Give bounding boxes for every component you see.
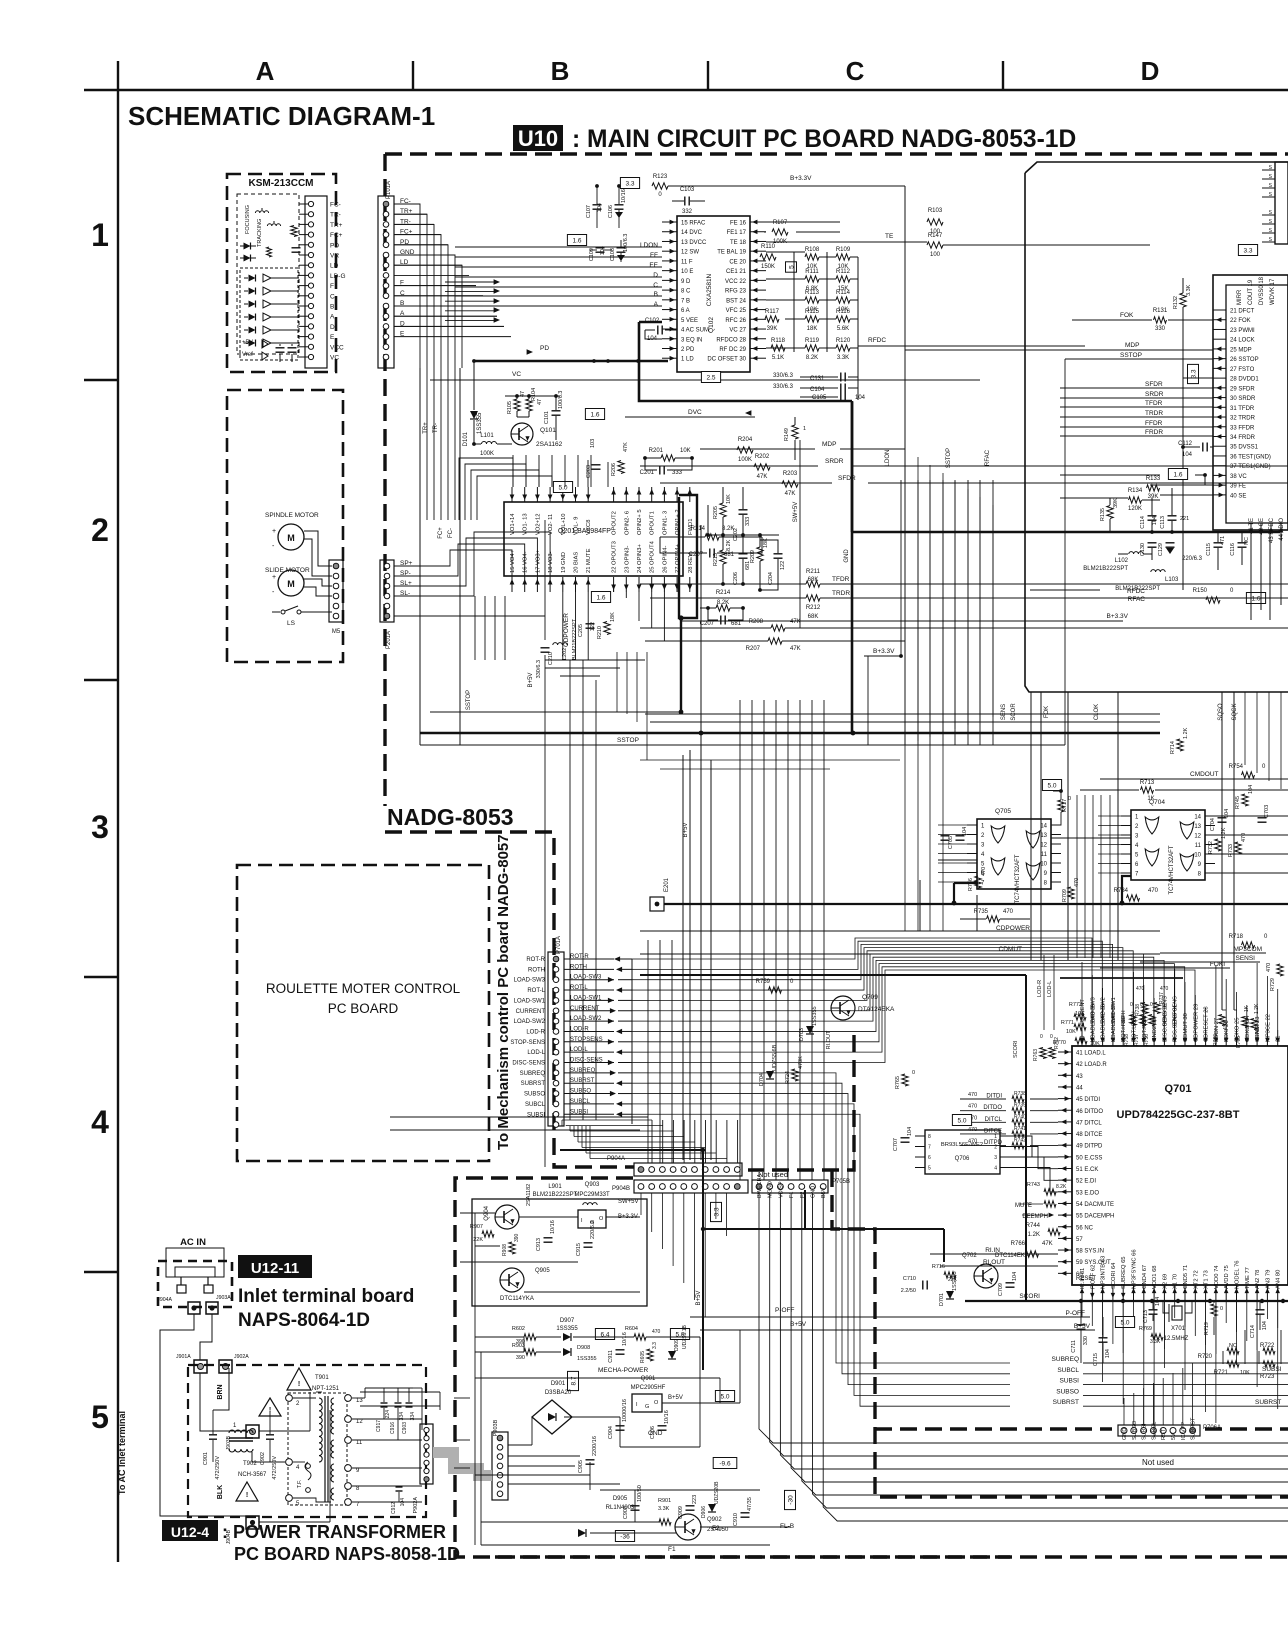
svg-text:RF DC 29: RF DC 29	[719, 347, 746, 353]
svg-text:29 SFDR: 29 SFDR	[1230, 386, 1255, 392]
svg-text:330/6.3: 330/6.3	[773, 373, 794, 379]
resistor R714 1.2K	[1177, 739, 1183, 751]
svg-text:SSTOP: SSTOP	[946, 448, 952, 468]
main board dashed border step	[385, 832, 634, 1167]
svg-text:5.0: 5.0	[720, 1394, 729, 1401]
svg-text:M: M	[287, 533, 295, 543]
diode D101 1SS355	[470, 411, 478, 419]
roulette dashed box	[237, 865, 489, 1161]
svg-text:R116: R116	[836, 309, 851, 315]
svg-text:ROTH: ROTH	[528, 967, 545, 973]
svg-text:C101: C101	[544, 411, 550, 424]
resistor R133 39K	[1147, 485, 1160, 491]
svg-text:FC-: FC-	[330, 202, 341, 209]
transistor Q904 2SA1182	[495, 1205, 519, 1229]
svg-text:11: 11	[356, 1440, 363, 1446]
KSM photodiode 4	[249, 314, 256, 321]
svg-text:U12-11: U12-11	[251, 1260, 299, 1277]
row tick 3-4	[84, 976, 118, 978]
capacitor C130 104	[1148, 542, 1157, 544]
capacitor C912 104	[396, 1486, 403, 1488]
svg-text:G: G	[645, 1404, 649, 1410]
svg-text:0: 0	[1220, 1306, 1223, 1312]
svg-text:FE1 17: FE1 17	[727, 230, 747, 236]
svg-text:AVDD 75: AVDD 75	[1224, 1265, 1230, 1289]
svg-text:C114: C114	[1140, 516, 1146, 529]
svg-text:470: 470	[1266, 963, 1272, 972]
svg-text:VR: VR	[330, 253, 339, 260]
svg-text:R720: R720	[1198, 1354, 1213, 1360]
svg-text:23 PWMI: 23 PWMI	[1230, 328, 1255, 334]
transformer secondary windings	[331, 1398, 334, 1434]
capacitor C916 334	[395, 1402, 402, 1404]
resistor R602 390	[524, 1334, 536, 1340]
svg-text:SQSO: SQSO	[1218, 703, 1224, 721]
svg-text:8: 8	[928, 1134, 931, 1140]
svg-text:221: 221	[1180, 516, 1189, 522]
svg-text:58 SYS.IN: 58 SYS.IN	[1076, 1249, 1104, 1255]
svg-text:MP3INTB 63: MP3INTB 63	[1101, 1256, 1107, 1289]
value box 5.0 Q705	[1042, 780, 1061, 791]
svg-text:B: B	[654, 291, 658, 298]
svg-text:B5V: B5V	[821, 1187, 827, 1198]
resistor R113 10K	[805, 297, 819, 303]
svg-text:24 OPIN3+: 24 OPIN3+	[637, 544, 643, 573]
svg-text:R745: R745	[1235, 796, 1241, 809]
svg-text:C207: C207	[700, 621, 715, 627]
svg-text:SCHEMATIC DIAGRAM-1: SCHEMATIC DIAGRAM-1	[128, 101, 435, 131]
svg-text:43: 43	[1076, 1074, 1083, 1080]
thick loop around Q201 right edge	[679, 495, 697, 618]
svg-text:A: A	[256, 56, 275, 86]
svg-text:TR+: TR+	[330, 222, 343, 229]
svg-text:R120: R120	[836, 338, 851, 344]
svg-text:!: !	[269, 1407, 271, 1414]
svg-text:18K: 18K	[763, 538, 769, 548]
svg-text:C201: C201	[640, 470, 655, 476]
svg-text:C911: C911	[608, 1350, 614, 1363]
value box -30	[785, 1490, 796, 1509]
svg-text:5.0: 5.0	[558, 485, 567, 492]
svg-text:F1: F1	[668, 1546, 676, 1553]
svg-text:RI.OUT: RI.OUT	[983, 1259, 1005, 1266]
svg-text:55 DACEMPH: 55 DACEMPH	[1076, 1214, 1114, 1220]
svg-text:R602: R602	[512, 1326, 525, 1332]
svg-text:TE: TE	[885, 233, 894, 240]
resistor R120 3.3K	[836, 345, 850, 351]
svg-text:C912: C912	[391, 1502, 397, 1514]
svg-text:LOD-L: LOD-L	[1047, 981, 1053, 997]
svg-text:R743: R743	[1027, 1182, 1040, 1188]
svg-text:Vref: Vref	[242, 352, 253, 358]
svg-text:TRDR: TRDR	[1145, 410, 1163, 417]
svg-text:SCORI: SCORI	[1013, 1040, 1019, 1058]
resistor R147 100	[927, 242, 943, 248]
svg-text:GND: GND	[844, 549, 850, 563]
svg-text:SENSI: SENSI	[1235, 955, 1255, 962]
svg-text:C707: C707	[893, 1138, 899, 1151]
capacitor C114 104	[1148, 515, 1157, 517]
value box -9.6	[713, 1458, 737, 1469]
svg-text:Q702: Q702	[962, 1253, 977, 1259]
transformer right pins	[345, 1395, 352, 1402]
svg-text:1: 1	[803, 426, 806, 432]
resistor R729 470	[1277, 964, 1283, 976]
value box 5 vertical	[786, 262, 797, 272]
svg-text:TFDR: TFDR	[1145, 400, 1163, 407]
svg-text:FRDR: FRDR	[1145, 429, 1163, 436]
svg-text:D: D	[653, 272, 658, 279]
svg-text:SUBCL: SUBCL	[525, 1102, 546, 1108]
svg-text:VOL- 9: VOL- 9	[574, 517, 580, 535]
svg-text:28 DVDD1: 28 DVDD1	[1230, 377, 1259, 383]
top right pin 4	[1262, 196, 1275, 198]
KSM photodiode 5	[249, 327, 256, 334]
svg-text:R740: R740	[1014, 1114, 1026, 1120]
resistor R716 22K	[944, 1272, 956, 1278]
svg-text:11 F: 11 F	[681, 259, 693, 265]
svg-text:RFDCO 28: RFDCO 28	[716, 337, 746, 343]
svg-text:45 DITDI: 45 DITDI	[1076, 1097, 1100, 1103]
svg-text:39K: 39K	[1113, 498, 1119, 508]
resistor R707 1.2K	[1251, 1019, 1257, 1030]
wires lower mid band	[545, 659, 645, 661]
AC inlet dashed box	[158, 1261, 232, 1307]
svg-text:56 NC: 56 NC	[1076, 1225, 1094, 1231]
value box 5.0 mecha	[670, 1329, 689, 1340]
svg-text:4: 4	[994, 1166, 997, 1172]
svg-text:C: C	[846, 56, 865, 86]
svg-text:R762: R762	[1054, 1037, 1060, 1049]
capacitor C202 333	[739, 509, 748, 511]
svg-text:2: 2	[994, 1145, 997, 1151]
svg-text:: MAIN CIRCUIT PC BOARD NADG-: : MAIN CIRCUIT PC BOARD NADG-8053-1D	[572, 126, 1076, 153]
svg-text:14: 14	[1194, 815, 1201, 821]
svg-text:122: 122	[590, 622, 596, 631]
diode D701 1SS355	[946, 1291, 954, 1299]
resistor R206 47K	[618, 461, 624, 474]
svg-text:1.2K: 1.2K	[1028, 1232, 1040, 1238]
top right pin 7	[1262, 232, 1275, 234]
svg-text:LD: LD	[330, 263, 339, 270]
value box 1.6 left	[585, 409, 604, 420]
svg-text:L101: L101	[480, 433, 494, 439]
svg-text:C904: C904	[608, 1426, 614, 1439]
KSM photodiode 6	[249, 340, 256, 347]
svg-text:R202: R202	[755, 454, 770, 460]
resistor R115 18K	[805, 316, 819, 322]
resistor R203 47K	[782, 481, 798, 487]
svg-text:C107: C107	[586, 205, 592, 218]
svg-text:GND: GND	[1122, 1428, 1128, 1440]
svg-text:FF: FF	[650, 252, 658, 259]
caps top rail	[365, 1387, 413, 1389]
svg-text:DTC114EKA: DTC114EKA	[995, 1253, 1029, 1259]
spindle motor M1	[278, 524, 304, 550]
svg-text:4 AC SUM: 4 AC SUM	[681, 328, 709, 334]
svg-text:P-OFF: P-OFF	[775, 1307, 795, 1314]
svg-text:D901: D901	[551, 1381, 566, 1387]
svg-text:B+5V: B+5V	[668, 1395, 683, 1401]
resistor R736 470	[975, 876, 981, 888]
KSM laser diode D2	[244, 255, 251, 262]
svg-text:GND4 67: GND4 67	[1142, 1265, 1148, 1289]
top right pin 3	[1262, 187, 1275, 189]
svg-text:Q701: Q701	[1165, 1083, 1192, 1095]
svg-text:P904B: P904B	[612, 1186, 630, 1192]
svg-text:0: 0	[1050, 1034, 1053, 1040]
Q201 top wire verticals	[512, 455, 514, 487]
AC inlet plug shape	[166, 1248, 224, 1277]
svg-text:R738: R738	[1014, 1091, 1026, 1097]
svg-text:23 OPIN3-: 23 OPIN3-	[624, 546, 630, 573]
resistor R119 8.2K	[805, 345, 819, 351]
label U12-11 block	[238, 1255, 312, 1278]
svg-text:49 DITPD: 49 DITPD	[1076, 1144, 1103, 1150]
svg-text:+: +	[272, 574, 276, 581]
svg-text:2.5: 2.5	[706, 375, 715, 382]
KSM pin LD	[308, 263, 313, 268]
svg-text:10K: 10K	[1240, 1370, 1250, 1376]
svg-text:50 E.CSS: 50 E.CSS	[1076, 1155, 1102, 1161]
svg-text:Not used: Not used	[1142, 1458, 1174, 1467]
svg-text:5: 5	[91, 1399, 109, 1435]
KSM cap near LD	[292, 247, 301, 249]
svg-text:R201: R201	[649, 448, 664, 454]
column tick B	[412, 61, 414, 90]
svg-text:EE: EE	[649, 262, 658, 269]
sub-board box power reg	[472, 1199, 647, 1306]
value box 6.4	[595, 1329, 614, 1340]
svg-text:3.3: 3.3	[1243, 248, 1252, 255]
svg-text:R214: R214	[716, 590, 731, 596]
P705B vertical wires down	[759, 1193, 1288, 1443]
top right pin 8	[1262, 241, 1275, 243]
wires from P101A down	[394, 204, 420, 368]
svg-text:RI.OUT: RI.OUT	[826, 1030, 832, 1049]
svg-text:6.4: 6.4	[600, 1332, 609, 1339]
power region horizontal rails	[460, 1212, 495, 1214]
svg-text:R150: R150	[1193, 588, 1208, 594]
value box 8.7	[568, 1371, 579, 1390]
Q201 bottom wire verticals right half	[613, 584, 615, 592]
capacitor C101 100/6.3	[552, 410, 561, 412]
wire B+3.3V	[668, 185, 905, 187]
svg-text:R205: R205	[713, 506, 719, 519]
svg-text:U12-4: U12-4	[171, 1524, 209, 1540]
capacitor C102 104	[657, 326, 659, 335]
svg-text:14: 14	[1040, 824, 1047, 830]
svg-text:LOAD-SW3: LOAD-SW3	[514, 978, 546, 984]
resistor R132 3.3K	[1180, 293, 1186, 307]
svg-text:LOAD.SW1 37: LOAD.SW1 37	[1111, 1004, 1117, 1042]
long horizontals left-to-right mid	[390, 1116, 648, 1118]
resistor R111 6.8K	[805, 276, 819, 282]
svg-text:GND: GND	[648, 1430, 663, 1437]
svg-text:MODEL 76: MODEL 76	[1235, 1261, 1241, 1289]
svg-text:681: 681	[731, 621, 742, 627]
capacitor C201 333	[659, 466, 661, 475]
staircase corners right of Q102	[904, 449, 906, 745]
svg-text:R123: R123	[653, 174, 668, 180]
svg-text:Q902: Q902	[707, 1517, 722, 1523]
transformer pin 2	[286, 1395, 293, 1402]
KSM monitor diode	[267, 247, 272, 257]
svg-text:104: 104	[1182, 452, 1193, 458]
svg-text:P.OFF 62: P.OFF 62	[1090, 1265, 1096, 1289]
svg-text:R737: R737	[1159, 992, 1165, 1004]
svg-text:2 PD: 2 PD	[681, 347, 695, 353]
resistor R110 150K	[760, 254, 776, 260]
svg-text:8.2K: 8.2K	[722, 526, 734, 532]
svg-text:1.2K: 1.2K	[1183, 727, 1189, 739]
svg-text:330/6.3: 330/6.3	[536, 660, 542, 678]
svg-text:TC74VHCT32AFT: TC74VHCT32AFT	[1169, 845, 1175, 894]
svg-text:R723: R723	[1260, 1374, 1275, 1380]
svg-text:B+3.3V: B+3.3V	[1106, 613, 1128, 620]
resistor R769 3.3K	[1151, 1334, 1163, 1340]
svg-text:SQCK: SQCK	[1232, 703, 1238, 720]
svg-text:R765: R765	[895, 1076, 901, 1089]
capacitor C704 104	[1218, 817, 1227, 819]
svg-text:33 FFDR: 33 FFDR	[1230, 425, 1255, 431]
svg-text:R208: R208	[749, 619, 764, 625]
svg-text:J902A: J902A	[234, 1354, 249, 1360]
svg-text:8.7: 8.7	[571, 1376, 578, 1385]
resistor R732 1.2K	[1215, 839, 1221, 851]
svg-text:RST: RST	[1161, 1428, 1167, 1440]
svg-text:GND: GND	[811, 1186, 817, 1198]
svg-text:100K: 100K	[480, 451, 494, 457]
svg-text:11: 11	[1041, 852, 1048, 858]
gray ribbon cable	[433, 1447, 459, 1458]
capacitor C116 NC	[1238, 542, 1247, 544]
svg-text:47K: 47K	[790, 619, 801, 625]
value box 1.6 caps	[567, 235, 586, 246]
pins 38-40 wires	[1150, 484, 1213, 486]
svg-text:25 MDP: 25 MDP	[1230, 347, 1252, 353]
bus lines into P904 region	[562, 1119, 652, 1121]
svg-text:C903: C903	[402, 1422, 408, 1434]
svg-text:FOCUSING: FOCUSING	[245, 205, 251, 234]
svg-text:R739: R739	[1014, 1103, 1026, 1109]
transformer T901 warning triangle	[287, 1368, 311, 1390]
svg-text:OPOUT1: OPOUT1	[650, 511, 656, 535]
svg-text:8.2K: 8.2K	[726, 539, 732, 551]
svg-text:C204: C204	[768, 572, 774, 585]
capacitor C905 2200/16	[586, 1459, 595, 1461]
svg-text:10000/16: 10000/16	[622, 1399, 628, 1422]
svg-text:13: 13	[1040, 833, 1047, 839]
svg-text:R107: R107	[773, 220, 788, 226]
Q705 input wires	[938, 824, 967, 826]
value box 3.3 power	[711, 1202, 722, 1221]
svg-text:R133: R133	[1146, 476, 1161, 482]
svg-text:0: 0	[912, 1070, 915, 1076]
svg-text:P-OFF: P-OFF	[1066, 1310, 1086, 1317]
svg-text:26 SSTOP: 26 SSTOP	[1230, 357, 1259, 363]
svg-text:1.6: 1.6	[1173, 472, 1182, 479]
top right pin 1	[1262, 169, 1275, 171]
svg-text:52 E.DI: 52 E.DI	[1076, 1179, 1096, 1185]
resistor R213 8.2K	[720, 550, 726, 564]
wire routes P701A to Q701 top pins	[648, 938, 1092, 1030]
svg-text:C901: C901	[203, 1452, 209, 1465]
svg-text:SW+5V: SW+5V	[618, 1199, 639, 1205]
svg-text:LS: LS	[287, 620, 296, 627]
svg-text:54 DACMUTE: 54 DACMUTE	[1076, 1202, 1114, 1208]
wires above Q701 top pins	[1081, 962, 1083, 1030]
svg-text:R714: R714	[1170, 741, 1176, 754]
svg-text:1.6: 1.6	[596, 595, 605, 602]
svg-text:J901A: J901A	[176, 1354, 191, 1360]
svg-text:10K: 10K	[680, 448, 691, 454]
thick power rails	[560, 1149, 703, 1151]
resistor R754 0	[1242, 772, 1255, 778]
resistor R201 10K	[661, 455, 675, 461]
svg-text:20 BIAS: 20 BIAS	[574, 552, 580, 573]
svg-text:42 LOAD.R: 42 LOAD.R	[1076, 1062, 1107, 1068]
capacitor C903 334	[406, 1402, 413, 1404]
svg-text:R204: R204	[738, 437, 753, 443]
label U12-4 block	[162, 1520, 218, 1541]
svg-text:SUBREQ: SUBREQ	[1052, 1356, 1079, 1363]
svg-text:M5: M5	[332, 629, 341, 635]
svg-text:UDZS5.6B: UDZS5.6B	[772, 1044, 778, 1071]
svg-text:C917: C917	[376, 1420, 382, 1432]
capacitor C710 2.2/50	[922, 1281, 924, 1290]
svg-text:RFG 23: RFG 23	[725, 289, 747, 295]
svg-text:R769: R769	[1139, 1326, 1152, 1332]
svg-text:KSM-213CCM: KSM-213CCM	[248, 178, 313, 189]
value box 2.5	[701, 372, 720, 383]
capacitor C915 220/6.3	[584, 1242, 593, 1244]
audio IC Q201 BA5984FP box	[504, 502, 683, 576]
svg-text:47K: 47K	[623, 442, 629, 452]
resistor R114 10K	[836, 297, 850, 303]
svg-text:B+5V: B+5V	[696, 1291, 702, 1306]
svg-text:R605: R605	[640, 1351, 646, 1363]
column tick C	[707, 61, 709, 90]
svg-text:MP3COM: MP3COM	[1233, 946, 1262, 953]
svg-text:C103: C103	[680, 187, 695, 193]
resistor R733 470	[1235, 842, 1241, 854]
svg-text:R118: R118	[771, 338, 786, 344]
resistor R765	[902, 1074, 908, 1086]
svg-text:35 DVSS1: 35 DVSS1	[1230, 445, 1259, 451]
capacitor C703	[1258, 817, 1267, 819]
svg-text:PD: PD	[330, 242, 339, 249]
svg-text:RFC 26: RFC 26	[725, 318, 746, 324]
svg-text:C714: C714	[1250, 1325, 1256, 1338]
svg-text:D: D	[330, 324, 335, 331]
resistor R123 0	[652, 183, 668, 189]
resistor R745	[1242, 794, 1248, 806]
svg-text:1.2K: 1.2K	[1221, 827, 1227, 839]
svg-text:104: 104	[1262, 1321, 1268, 1330]
svg-text:VC 27: VC 27	[729, 328, 746, 334]
value box 3.3 right	[1238, 245, 1257, 256]
thick GND rail y733	[420, 732, 1160, 734]
svg-text:470: 470	[1003, 909, 1014, 915]
svg-text:To AC Inlet terminal: To AC Inlet terminal	[117, 1411, 127, 1495]
logic IC Q704 TC74VHCT32AFT	[1131, 810, 1205, 880]
capacitor C910 47/35	[741, 1512, 750, 1514]
svg-text:LOAD.SW3 39: LOAD.SW3 39	[1090, 1004, 1096, 1042]
resistor R737 470	[1154, 1003, 1160, 1014]
svg-text:SUBRST: SUBRST	[1053, 1399, 1079, 1406]
svg-text:PCS.SENS 31: PCS.SENS 31	[1173, 1005, 1179, 1042]
